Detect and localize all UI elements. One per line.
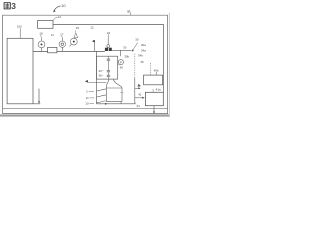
svg-text:12: 12 (90, 26, 94, 30)
flow arrow right on bottom pipe (105, 103, 108, 105)
hose 2 (96, 95, 106, 97)
tank body (106, 88, 122, 102)
figure label 図3 (4, 3, 10, 9)
engine block (96, 56, 117, 79)
tank inner tick (120, 92, 124, 94)
svg-text:41a: 41a (156, 88, 161, 92)
block interior pipe (107, 56, 109, 79)
page scan band right (169, 13, 170, 116)
dashed line to box 40 (149, 63, 151, 75)
svg-text:30b: 30b (124, 54, 129, 58)
svg-text:18: 18 (39, 32, 43, 36)
side pipe with flag (88, 80, 107, 82)
drop to block (120, 50, 122, 56)
flow arrow down at x39 (38, 89, 40, 102)
svg-text:~: ~ (102, 69, 104, 73)
box 40 (144, 75, 163, 85)
leader arrow right cluster (133, 43, 138, 51)
svg-text:38: 38 (120, 66, 124, 70)
reservoir box 100 (7, 38, 33, 104)
svg-text:9: 9 (127, 10, 129, 14)
small arrow below box 40 (138, 84, 141, 87)
pump P2 (61, 38, 63, 41)
pipe right of valve (112, 49, 131, 51)
pump pipe (33, 50, 105, 52)
bell / dome (106, 79, 122, 88)
dashed drain line (134, 54, 136, 78)
long vertical pipe (96, 51, 99, 103)
svg-text:35: 35 (140, 60, 144, 64)
svg-text:30: 30 (135, 38, 139, 42)
strainer triangle (74, 33, 78, 38)
constriction 2 (107, 70, 111, 72)
svg-text:2: 2 (86, 90, 88, 94)
tank stub to pipe (120, 102, 122, 104)
temp sensor flag (94, 40, 96, 51)
svg-text:11: 11 (86, 96, 89, 100)
svg-text:100: 100 (17, 25, 22, 29)
svg-text:15: 15 (76, 26, 80, 30)
svg-text:3: 3 (11, 1, 16, 11)
filter box (48, 47, 57, 52)
svg-text:42: 42 (138, 93, 142, 97)
outer pipe loop (3, 15, 168, 113)
constriction 3 (107, 75, 111, 77)
pressure gauge P (118, 60, 123, 65)
svg-text:44: 44 (136, 104, 140, 108)
inner pipe top/right (53, 24, 163, 92)
pump P3 (70, 38, 77, 45)
bottom pipe from reservoir (33, 103, 135, 105)
svg-text:~: ~ (102, 73, 104, 77)
pump P1 (41, 38, 43, 41)
top box (38, 21, 54, 29)
svg-text:34b: 34b (138, 54, 143, 58)
svg-text:14: 14 (58, 15, 62, 19)
svg-text:34a: 34a (141, 49, 146, 53)
arrow below box 41 (153, 106, 155, 112)
page scan band bottom (0, 114, 170, 116)
branch arrow 1 (135, 87, 139, 89)
svg-text:30: 30 (123, 46, 127, 50)
svg-text:10: 10 (85, 102, 89, 106)
svg-text:11: 11 (51, 33, 54, 37)
svg-text:P: P (120, 60, 122, 64)
hose 1 (96, 89, 106, 91)
hose 3 (96, 101, 106, 103)
branch arrow 2 into box (135, 97, 143, 99)
svg-text:40a: 40a (141, 43, 146, 47)
constriction 1 (107, 59, 111, 61)
pipe bottom inner (3, 107, 168, 109)
svg-text:10: 10 (61, 3, 66, 8)
box 41 (145, 92, 163, 105)
svg-text:17: 17 (60, 32, 64, 36)
